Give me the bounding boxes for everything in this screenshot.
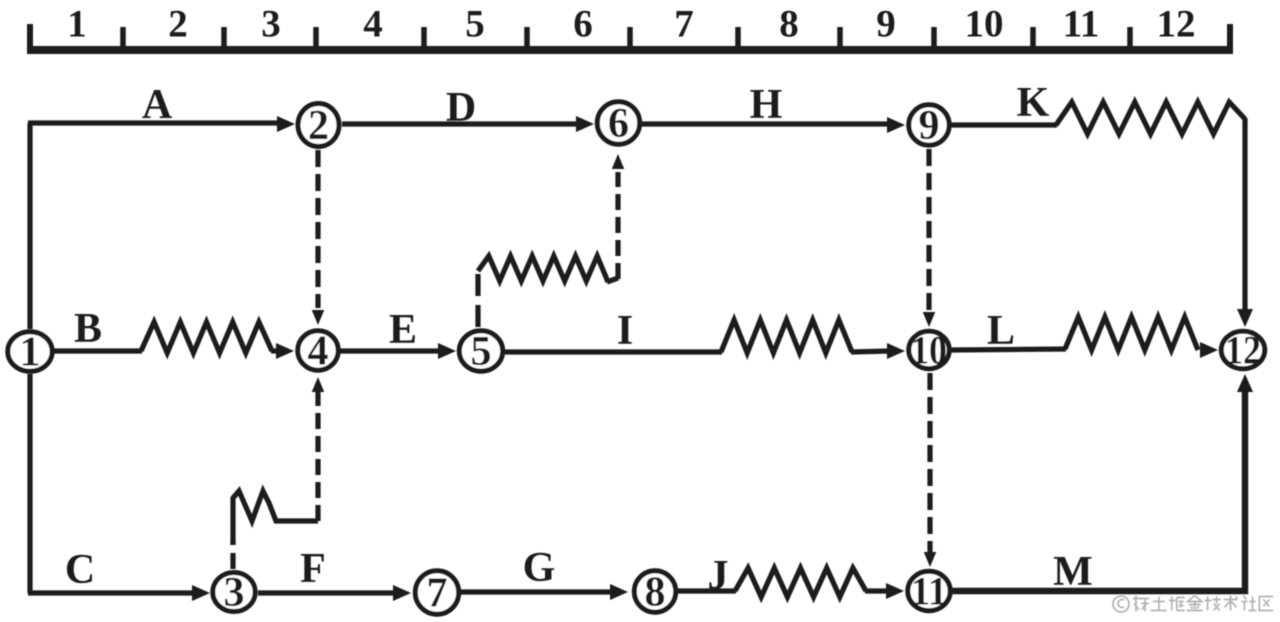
node 4 [298, 329, 338, 375]
node 12 [1221, 328, 1264, 373]
svg-text:9: 9 [919, 103, 940, 149]
svg-text:K: K [1017, 80, 1050, 126]
activity D arrow: node 2 to node 6 [342, 116, 594, 132]
svg-text:D: D [446, 85, 476, 131]
svg-text:M: M [1053, 549, 1093, 595]
svg-text:I: I [617, 308, 633, 354]
activity B arrow with float zigzag: node 1 to node 4 [53, 322, 294, 359]
svg-text:8: 8 [645, 570, 666, 616]
node 1 [8, 330, 52, 376]
svg-text:2: 2 [308, 103, 329, 149]
svg-text:3: 3 [224, 570, 245, 616]
svg-text:7: 7 [427, 571, 448, 617]
ruler tick marks [30, 24, 1230, 54]
node 8 [634, 570, 675, 616]
svg-text:10: 10 [965, 3, 1004, 46]
svg-text:G: G [523, 545, 556, 591]
activity C arrow: node 1 to node 3 [28, 585, 210, 601]
svg-text:2: 2 [168, 3, 188, 46]
activity L arrow with float zigzag: node 10 to node 12 [951, 317, 1218, 358]
activity K arrow with float zigzag: node 9 to node 12 top [951, 102, 1253, 327]
free float link node 5 up over zigzag to node 6 (dashed vertical) [478, 154, 624, 327]
svg-text:C: C [65, 547, 95, 593]
activity J arrow with float zigzag: node 8 to node 11 [678, 568, 904, 599]
svg-text:6: 6 [608, 101, 629, 147]
watermark: juejin community (gray CJK text approximated) [1113, 596, 1273, 613]
dummy arrow node 2 to node 4 (dashed) [312, 150, 325, 325]
svg-text:7: 7 [674, 3, 694, 46]
activity I arrow with float zigzag: node 5 to node 10 [505, 320, 905, 359]
dummy arrow node 9 to node 10 (dashed) [923, 149, 936, 327]
svg-text:A: A [142, 82, 173, 128]
svg-text:F: F [300, 546, 326, 592]
activity H arrow: node 6 to node 9 [642, 117, 905, 133]
svg-text:E: E [389, 307, 417, 353]
node 10 [909, 328, 949, 373]
node 2 [298, 103, 339, 149]
svg-text:1: 1 [20, 330, 41, 376]
svg-text:H: H [750, 82, 783, 128]
node 5 [459, 329, 502, 375]
node 9 [909, 103, 949, 149]
svg-text:11: 11 [911, 569, 947, 614]
svg-text:8: 8 [779, 3, 799, 46]
svg-text:5: 5 [465, 3, 485, 46]
activity E arrow: node 4 to node 5 [340, 343, 456, 359]
node 3 [213, 570, 255, 616]
svg-text:5: 5 [471, 329, 492, 375]
node 7 [415, 571, 458, 617]
activity M arrow: node 11 right then up into node 12 bottom [952, 374, 1253, 591]
svg-text:12: 12 [1225, 328, 1261, 373]
svg-text:4: 4 [308, 329, 329, 375]
activity A arrow: start to node 2 [28, 116, 295, 132]
svg-text:B: B [74, 306, 102, 352]
svg-text:9: 9 [876, 3, 896, 46]
svg-text:L: L [987, 308, 1015, 354]
svg-text:J: J [708, 553, 729, 599]
svg-text:1: 1 [67, 3, 87, 46]
free float link node 3 up over small zigzag to node 4 (dashed vertical) [233, 377, 324, 569]
ruler numbers 1-12 [67, 3, 1195, 46]
wire: left vertical from activity A start down through node 1 to activity C start [27, 123, 32, 593]
node 11 [908, 569, 950, 614]
svg-text:4: 4 [363, 3, 383, 46]
activity G arrow: node 7 to node 8 [461, 584, 628, 600]
svg-text:11: 11 [1063, 3, 1100, 46]
svg-text:3: 3 [261, 3, 281, 46]
node 6 [597, 101, 639, 147]
activity F arrow: node 3 to node 7 [258, 585, 411, 601]
timescale ruler bar [28, 46, 1233, 54]
svg-text:12: 12 [1157, 3, 1196, 46]
dummy arrow node 10 to node 11 (dashed) [924, 373, 937, 567]
svg-text:6: 6 [573, 3, 593, 46]
svg-text:10: 10 [911, 328, 947, 373]
